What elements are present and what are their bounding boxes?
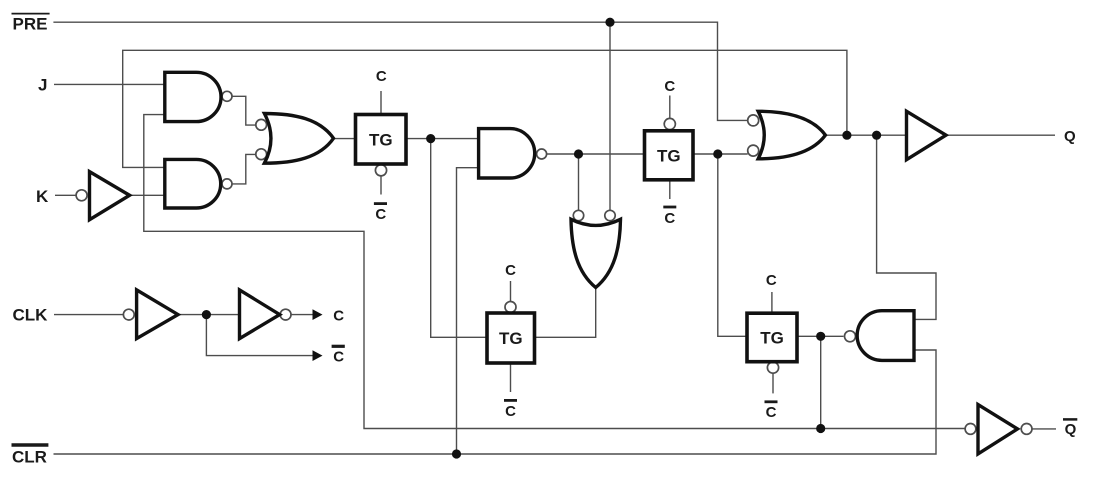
wire C output — [291, 314, 315, 316]
wire Qbar feedback to NAND1 — [144, 115, 965, 429]
wire CLK input — [54, 314, 123, 316]
wire CLR to NAND4 input2 — [54, 350, 937, 454]
wire NOR2v output joins TG3 output — [536, 288, 596, 338]
bubble TG2 top — [664, 118, 675, 129]
wire K input — [55, 194, 76, 196]
junction node TG4 output — [816, 332, 825, 341]
wire J input — [54, 83, 165, 85]
or gate OR1 — [264, 114, 333, 164]
wire Q node to NAND4 input1 — [877, 135, 936, 319]
bubble NAND2 output — [222, 179, 232, 189]
wire TG2 C stub — [669, 96, 671, 119]
junction node TG2 output — [713, 149, 722, 158]
wire TG3 C stub — [510, 281, 512, 302]
bubble NAND3 output — [537, 149, 547, 159]
bubble NAND1 output — [222, 91, 232, 101]
overline Cbar TG2 — [663, 206, 676, 209]
overline CLR — [12, 443, 49, 447]
wire TG4 Cbar stub — [772, 373, 774, 393]
transmission gate TG4 box — [747, 313, 797, 362]
overline PRE — [12, 13, 50, 15]
junction node on PRE line — [605, 18, 614, 27]
bubble OR1 input1 — [256, 119, 267, 130]
bubble TG3 top — [505, 302, 516, 313]
svg-text:C: C — [333, 307, 344, 324]
nor gate NOR2 — [758, 111, 825, 159]
bubble NOR2 input2 — [748, 145, 759, 156]
transmission gate TG3 box — [487, 313, 535, 363]
arrowhead C output — [313, 309, 323, 320]
bubble CLK inverter A input — [123, 309, 134, 320]
junction node Q to NAND4 — [872, 131, 881, 140]
bubble Qbar inverter input — [965, 424, 976, 435]
wire TG2 output to NOR2 — [694, 153, 748, 155]
wire NAND1 output to OR1 — [233, 96, 257, 125]
wire NAND2 output to OR1 — [233, 154, 257, 184]
overline Cbar TG1 — [374, 202, 387, 205]
svg-text:C: C — [664, 78, 675, 95]
svg-text:CLR: CLR — [12, 447, 47, 466]
svg-text:C: C — [766, 272, 777, 289]
wire Cbar branch — [206, 315, 314, 356]
wire Qbar node down — [820, 336, 822, 428]
transmission gate TG1 box — [356, 115, 407, 165]
bubble NOR2v input1 — [573, 210, 583, 220]
bubble TG4 bottom — [767, 362, 778, 373]
wire PRE tap to NOR2v input — [609, 22, 611, 210]
svg-text:C: C — [376, 68, 387, 85]
wire PRE net — [53, 22, 747, 120]
wire TG2 Cbar stub — [669, 181, 671, 199]
svg-text:TG: TG — [760, 329, 784, 348]
nand gate top-left J — [165, 72, 221, 121]
junction node Qbar line — [816, 424, 825, 433]
svg-text:C: C — [766, 404, 777, 421]
svg-text:TG: TG — [369, 130, 393, 149]
nand gate NAND3 — [479, 129, 535, 178]
svg-text:CLK: CLK — [13, 306, 49, 325]
svg-text:Q: Q — [1065, 421, 1077, 438]
wire TG1 node down to TG3 — [431, 139, 486, 338]
bubble K inverter input — [76, 190, 87, 201]
svg-text:J: J — [38, 76, 47, 95]
bubble CLK inverter B output — [280, 309, 291, 320]
wire Q feedback to NAND2 — [123, 50, 847, 167]
junction node CLR to NAND3 — [452, 449, 461, 458]
wire Q buffer output — [946, 134, 1055, 136]
wire TG1 output to NAND3 — [407, 138, 479, 140]
svg-text:PRE: PRE — [13, 14, 48, 33]
wire OR1 output to TG1 — [333, 138, 355, 140]
bubble TG1 bottom — [375, 165, 386, 176]
wire TG2 node down to TG4 — [718, 154, 746, 336]
svg-text:TG: TG — [499, 329, 523, 348]
bubble NOR2v input2 — [605, 210, 615, 220]
junction node Q feedback — [842, 131, 851, 140]
bubble OR1 input2 — [256, 149, 267, 160]
inverter CLK A — [137, 290, 178, 339]
nor gate vertical NOR2v — [571, 219, 621, 287]
wire NAND3 input2 from CLR — [457, 168, 479, 454]
bubble NAND4 output — [845, 331, 856, 342]
junction node TG1 output — [426, 134, 435, 143]
inverter CLK B — [240, 290, 280, 339]
svg-text:K: K — [36, 187, 49, 206]
svg-text:C: C — [505, 262, 516, 279]
wire inverter A output — [178, 314, 240, 316]
overline Cbar TG4 — [765, 400, 778, 403]
inverter Qbar — [978, 405, 1018, 454]
junction node NAND3 output — [574, 149, 583, 158]
svg-text:C: C — [664, 210, 675, 227]
svg-text:C: C — [333, 348, 344, 365]
arrowhead Cbar output — [313, 350, 323, 361]
svg-text:TG: TG — [657, 146, 681, 165]
buffer Q — [907, 111, 947, 159]
overline Cbar TG3 — [504, 399, 517, 402]
bubble NOR2 input1 — [748, 115, 759, 126]
overline Cbar clock — [332, 345, 345, 348]
overline Qbar — [1063, 418, 1077, 421]
junction node CLK buffer — [202, 310, 211, 319]
svg-text:C: C — [375, 206, 386, 223]
wire Qbar inverter output — [1032, 428, 1056, 430]
wire K inverter output — [130, 194, 165, 196]
bubble Qbar inverter output — [1021, 424, 1032, 435]
wire TG4 C stub — [771, 292, 773, 312]
wire TG1 Cbar stub — [380, 176, 382, 195]
transmission gate TG2 box — [645, 131, 694, 180]
wire NOR2 output to Q buffer — [825, 134, 906, 136]
svg-text:C: C — [505, 403, 516, 420]
svg-text:Q: Q — [1064, 128, 1076, 145]
nand gate bottom-left K — [165, 159, 221, 208]
wire TG1 C stub — [380, 91, 382, 114]
wire TG3 Cbar stub — [510, 364, 512, 392]
wire NAND3 node down to NOR2v input — [578, 154, 580, 210]
wire TG4 output to NAND4 — [798, 335, 843, 337]
nand gate NAND4 mirrored — [857, 311, 914, 361]
inverter K — [90, 172, 130, 220]
wire NAND3 output to TG2 — [547, 153, 644, 155]
